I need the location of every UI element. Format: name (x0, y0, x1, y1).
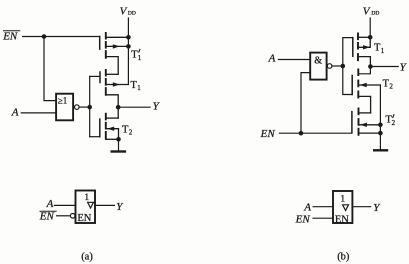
svg-text:V: V (120, 6, 128, 18)
NOR output inversion bubble (75, 105, 80, 110)
NAND qualifier label & (314, 55, 322, 66)
svg-text:EN: EN (260, 128, 276, 140)
svg-text:1: 1 (340, 195, 345, 205)
node Y label (b) (400, 62, 408, 74)
wire Y output (b symbol) (352, 206, 370, 208)
junction dot EN-bar branch (42, 34, 47, 39)
input EN label (b symbol) (295, 213, 311, 225)
junction dot T1' bulk at VDD (126, 44, 131, 49)
wire gate line of T1 and T2 (89, 76, 91, 136)
svg-text:(a): (a) (81, 252, 93, 263)
wire A input (b symbol) (313, 206, 333, 208)
wire EN to gate of T2' (279, 132, 352, 134)
input EN-bar label (a symbol) (39, 210, 55, 222)
node A label (b) (268, 53, 276, 65)
svg-text:EN: EN (39, 210, 55, 222)
svg-text:2: 2 (389, 83, 393, 91)
svg-text:DD: DD (371, 10, 379, 16)
wire T2 source to ground (118, 139, 120, 150)
wire A to NOR input (21, 112, 56, 114)
junction dot T2' bulk (378, 123, 383, 128)
transistor T2 (NMOS, b) (352, 69, 380, 113)
NOR qualifier label >=1 (58, 96, 67, 106)
junction dot node Y (b) (368, 64, 373, 69)
caption (a) (81, 252, 93, 263)
input A label (a symbol) (46, 198, 54, 210)
wire VDD rail (127, 18, 129, 85)
svg-text:2: 2 (129, 129, 133, 137)
wire A to AND input (278, 59, 310, 61)
svg-text:A: A (303, 201, 311, 213)
wire A input (a symbol) (54, 204, 75, 206)
label T2' (385, 115, 395, 127)
junction dot T2' source (378, 131, 383, 136)
label T1' (131, 49, 141, 61)
node Y wire (a) (118, 106, 150, 108)
svg-text:1: 1 (137, 84, 141, 92)
label T2 (122, 124, 133, 136)
svg-text:≥1: ≥1 (58, 96, 67, 106)
power VDD label (b) (363, 6, 380, 18)
power VDD label (a) (120, 6, 136, 18)
node Y label (a symbol) (116, 201, 124, 213)
wire NAND output (332, 65, 343, 67)
node A label (11, 107, 19, 119)
gate NAND (IEC &) (310, 53, 326, 80)
ground (a) (112, 150, 125, 152)
node Y label (a) (153, 100, 161, 112)
ground (b) (374, 149, 387, 151)
svg-text:EN: EN (77, 213, 91, 224)
junction dot NOR output (87, 105, 92, 110)
node Y label (b symbol) (373, 202, 381, 214)
svg-text:DD: DD (128, 10, 136, 16)
junction dot EN branch (299, 131, 304, 136)
tri-state symbol box (a) (76, 191, 96, 224)
node EN label (b) (260, 128, 276, 140)
tri-state symbol box (b) (333, 191, 352, 223)
tri-state triangle (b) (343, 205, 349, 211)
wire EN-bar to gate of T1' (23, 36, 100, 38)
svg-text:(b): (b) (337, 252, 350, 263)
svg-text:A: A (46, 198, 54, 210)
svg-text:1: 1 (84, 193, 89, 203)
symbol (b) qualifier 1 (340, 195, 345, 205)
label T1 (b) (374, 43, 385, 55)
node Y wire (b) (370, 66, 398, 68)
wire NAND output down to gate of T2 (343, 66, 352, 95)
label T2 (b) (383, 79, 394, 91)
symbol (b) EN pin label (335, 214, 349, 225)
label T1 (130, 80, 141, 92)
transistor T1' (PMOS) (100, 33, 129, 74)
wire T2 bulk down (379, 85, 381, 125)
wire Y down to T2 (358, 67, 370, 74)
wire EN-bar input (a symbol) (57, 215, 71, 217)
transistor T2 (NMOS) (90, 114, 119, 140)
symbol (a) qualifier 1 (84, 193, 89, 203)
tri-state triangle (a) (88, 202, 94, 208)
input A label (b symbol) (303, 201, 311, 213)
label T1' prime mark (139, 49, 140, 52)
symbol (a) EN pin label (77, 213, 91, 224)
wire T2' source to ground (379, 125, 381, 150)
svg-text:Y: Y (400, 62, 408, 74)
transistor T1 (PMOS, b) (353, 34, 371, 67)
node EN-bar label (2, 30, 18, 42)
wire EN input (b symbol) (313, 217, 333, 219)
wire NOR output to gate line (79, 106, 90, 108)
overline of EN-bar (a symbol) (40, 210, 56, 212)
NAND output inversion bubble (327, 64, 332, 69)
transistor T1 (PMOS) (90, 70, 129, 118)
gate NOR (IEC >=1) (56, 94, 73, 121)
junction dot node Y (a) (116, 105, 121, 110)
svg-text:Y: Y (153, 100, 161, 112)
wire EN branch up to AND input (301, 73, 310, 134)
junction dot T1 source at VDD (368, 35, 373, 40)
inversion bubble EN input (a symbol) (70, 214, 75, 219)
svg-text:EN: EN (295, 213, 311, 225)
wire Y output (a symbol) (95, 204, 114, 206)
junction dot NAND output (341, 64, 346, 69)
svg-text:A: A (11, 107, 19, 119)
label T2' prime mark (393, 115, 394, 118)
junction dot T2 source-bulk (116, 137, 121, 142)
junction dot T1' source at VDD (126, 35, 131, 40)
svg-text:Y: Y (373, 202, 381, 214)
svg-text:EN: EN (2, 30, 18, 42)
svg-text:V: V (363, 6, 371, 18)
svg-text:EN: EN (335, 214, 349, 225)
svg-text:2: 2 (392, 119, 396, 127)
overline of EN-bar (4, 30, 20, 32)
wire EN-bar branch down to NOR input (44, 37, 56, 101)
svg-text:1: 1 (381, 47, 385, 55)
svg-text:A: A (268, 53, 276, 65)
wire NAND output up to gate of T1 (343, 38, 353, 66)
transistor T2' (NMOS, b) (352, 109, 381, 135)
svg-text:&: & (314, 55, 322, 66)
svg-text:1: 1 (138, 54, 142, 62)
caption (b) (337, 252, 350, 263)
svg-text:Y: Y (116, 201, 124, 213)
wire VDD down to T1 (369, 18, 371, 37)
